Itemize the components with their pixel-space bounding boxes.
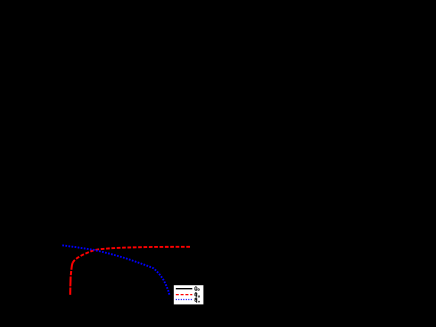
legend box <box>174 285 204 304</box>
legend label q_v (hat-q sub v) <box>195 298 200 303</box>
legend line u0 (black solid) <box>176 288 193 290</box>
curve q_u (red dashed) <box>73 247 190 263</box>
legend label q_u (hat-q sub u) <box>195 293 200 298</box>
curve q_v (blue dotted) <box>62 245 169 294</box>
legend line q_u (red dashed) <box>176 294 193 296</box>
legend line q_v (blue dotted) <box>176 299 193 301</box>
curve q_u steep segment (red dashed) <box>70 263 72 295</box>
legend label u0 (hat-u sub 0) <box>195 287 200 291</box>
